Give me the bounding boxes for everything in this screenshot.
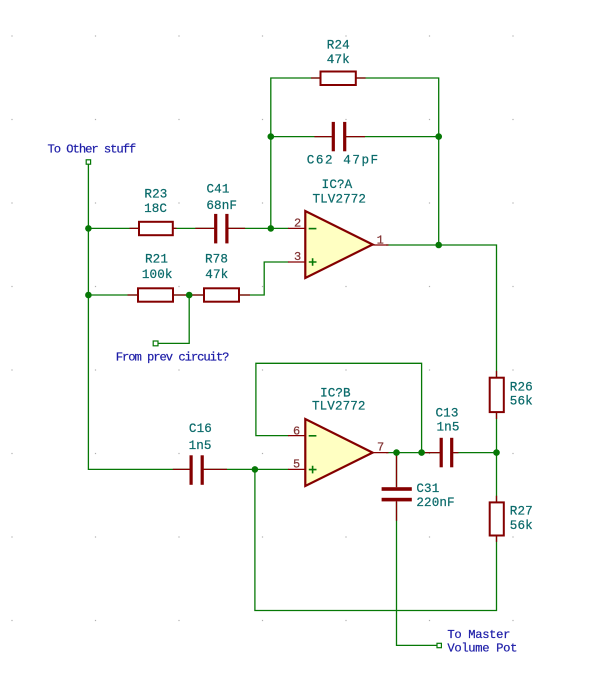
svg-text:R27: R27	[510, 504, 533, 518]
op-amp U1A triangle	[305, 211, 372, 278]
wire: opamp B output row to C13 and C13 to rail	[386, 452, 497, 454]
pin 6 stub	[288, 435, 305, 437]
op-amp U1B minus	[309, 435, 317, 437]
junction C62 right	[435, 133, 442, 140]
capacitor C41	[214, 214, 217, 244]
resistor R23 leads	[130, 227, 177, 229]
grid dots	[11, 35, 513, 621]
svg-text:IC?A: IC?A	[322, 178, 353, 192]
junction pin2 node	[268, 225, 275, 232]
pin 3 stub	[288, 261, 305, 263]
capacitor C31 leads	[396, 455, 398, 521]
pin square To Master Volume Pot	[437, 643, 441, 647]
pin square To Other stuff	[86, 160, 90, 164]
svg-text:C16: C16	[189, 422, 212, 436]
capacitor C62 leads	[314, 136, 365, 138]
resistor R78	[204, 288, 239, 301]
resistor R27 leads	[496, 496, 498, 542]
resistor R78 leads	[189, 294, 250, 296]
svg-text:3: 3	[294, 250, 301, 264]
svg-text:6: 6	[293, 425, 300, 439]
svg-text:47k: 47k	[327, 53, 350, 67]
svg-text:47k: 47k	[205, 268, 228, 282]
svg-text:IC?B: IC?B	[320, 386, 351, 400]
wire: R23 row segments	[88, 227, 288, 229]
junction C62 left	[268, 133, 275, 140]
svg-text:To Master: To Master	[447, 628, 510, 642]
svg-text:C13: C13	[436, 406, 459, 420]
svg-text:1n5: 1n5	[437, 421, 460, 435]
resistor R27	[490, 502, 504, 535]
svg-text:TLV2772: TLV2772	[312, 193, 366, 207]
capacitor C16 leads	[173, 468, 227, 470]
pin square From prev circuit	[153, 341, 158, 346]
wire: opamp A output to right rail, down to R26	[386, 245, 497, 378]
capacitor C31	[382, 487, 412, 491]
pin 1 stub	[372, 244, 389, 246]
pin 5 stub	[288, 468, 305, 470]
junction R21-R78 node	[186, 292, 193, 299]
wire: R21/R78 row and pin3 route	[88, 262, 288, 295]
svg-text:From prev circuit?: From prev circuit?	[116, 351, 229, 365]
pin 2 stub	[288, 227, 305, 229]
pin 7 stub	[372, 452, 389, 454]
svg-text:R26: R26	[510, 380, 533, 394]
svg-text:56k: 56k	[510, 394, 533, 408]
resistor R24 leads	[311, 77, 366, 79]
svg-text:C31: C31	[416, 482, 439, 496]
resistor R26	[490, 378, 504, 412]
wire: C16 to pin5	[204, 468, 289, 470]
op-amp U1B triangle	[305, 419, 372, 486]
wire: input rail from To Other stuff down and to C16	[88, 165, 189, 470]
junction feedback B tap	[418, 449, 425, 456]
wire: C31 branch down to To Master Volume Pot	[397, 453, 437, 646]
svg-text:2: 2	[294, 217, 301, 231]
junction pin5-C16	[252, 466, 259, 473]
op-amp U1B plus	[309, 466, 317, 474]
svg-text:C62 47pF: C62 47pF	[307, 153, 380, 167]
wire: feedback loop A left rail and top R24 row	[271, 78, 439, 245]
svg-text:R23: R23	[144, 188, 167, 202]
svg-text:68nF: 68nF	[206, 199, 237, 213]
svg-text:To Other stuff: To Other stuff	[48, 143, 136, 157]
op-amp U1A minus	[309, 228, 317, 230]
svg-text:1n5: 1n5	[189, 439, 212, 453]
capacitor C62	[332, 122, 335, 151]
svg-text:R21: R21	[145, 253, 168, 267]
wire: stub to From prev circuit	[158, 295, 189, 343]
svg-text:TLV2772: TLV2772	[312, 400, 366, 414]
resistor R26 leads	[496, 371, 498, 419]
junction C13-rail	[493, 449, 500, 456]
capacitor C13	[440, 438, 443, 468]
svg-text:1: 1	[377, 233, 384, 247]
svg-text:18C: 18C	[144, 202, 167, 216]
junction input-R23	[85, 225, 92, 232]
svg-text:Volume Pot: Volume Pot	[447, 642, 517, 656]
svg-text:7: 7	[377, 441, 384, 455]
resistor R24	[321, 72, 356, 86]
svg-text:220nF: 220nF	[416, 496, 454, 510]
svg-text:C41: C41	[207, 183, 230, 197]
junction opamp A output	[435, 242, 442, 249]
svg-text:56k: 56k	[510, 519, 533, 533]
junction C31 tap	[393, 449, 400, 456]
resistor R21	[138, 288, 173, 301]
resistor R23	[139, 222, 173, 235]
op-amp U1A plus	[309, 258, 317, 266]
capacitor C13 leads	[423, 452, 459, 454]
svg-text:100k: 100k	[142, 268, 173, 282]
svg-text:R78: R78	[205, 253, 228, 267]
svg-text:5: 5	[293, 458, 300, 472]
svg-text:R24: R24	[327, 39, 350, 53]
wire: C62 row	[271, 136, 439, 138]
resistor R21 leads	[128, 294, 190, 296]
wire: pin6 and feedback loop B	[256, 363, 422, 452]
capacitor C16	[190, 455, 193, 485]
junction input-R21	[85, 292, 92, 299]
capacitor C41 leads	[195, 227, 245, 229]
wire: right rail below R27, bottom run, left rail up to pin5 row	[255, 469, 497, 610]
wire: right rail R26 to R27 through C13 junction	[496, 412, 498, 502]
